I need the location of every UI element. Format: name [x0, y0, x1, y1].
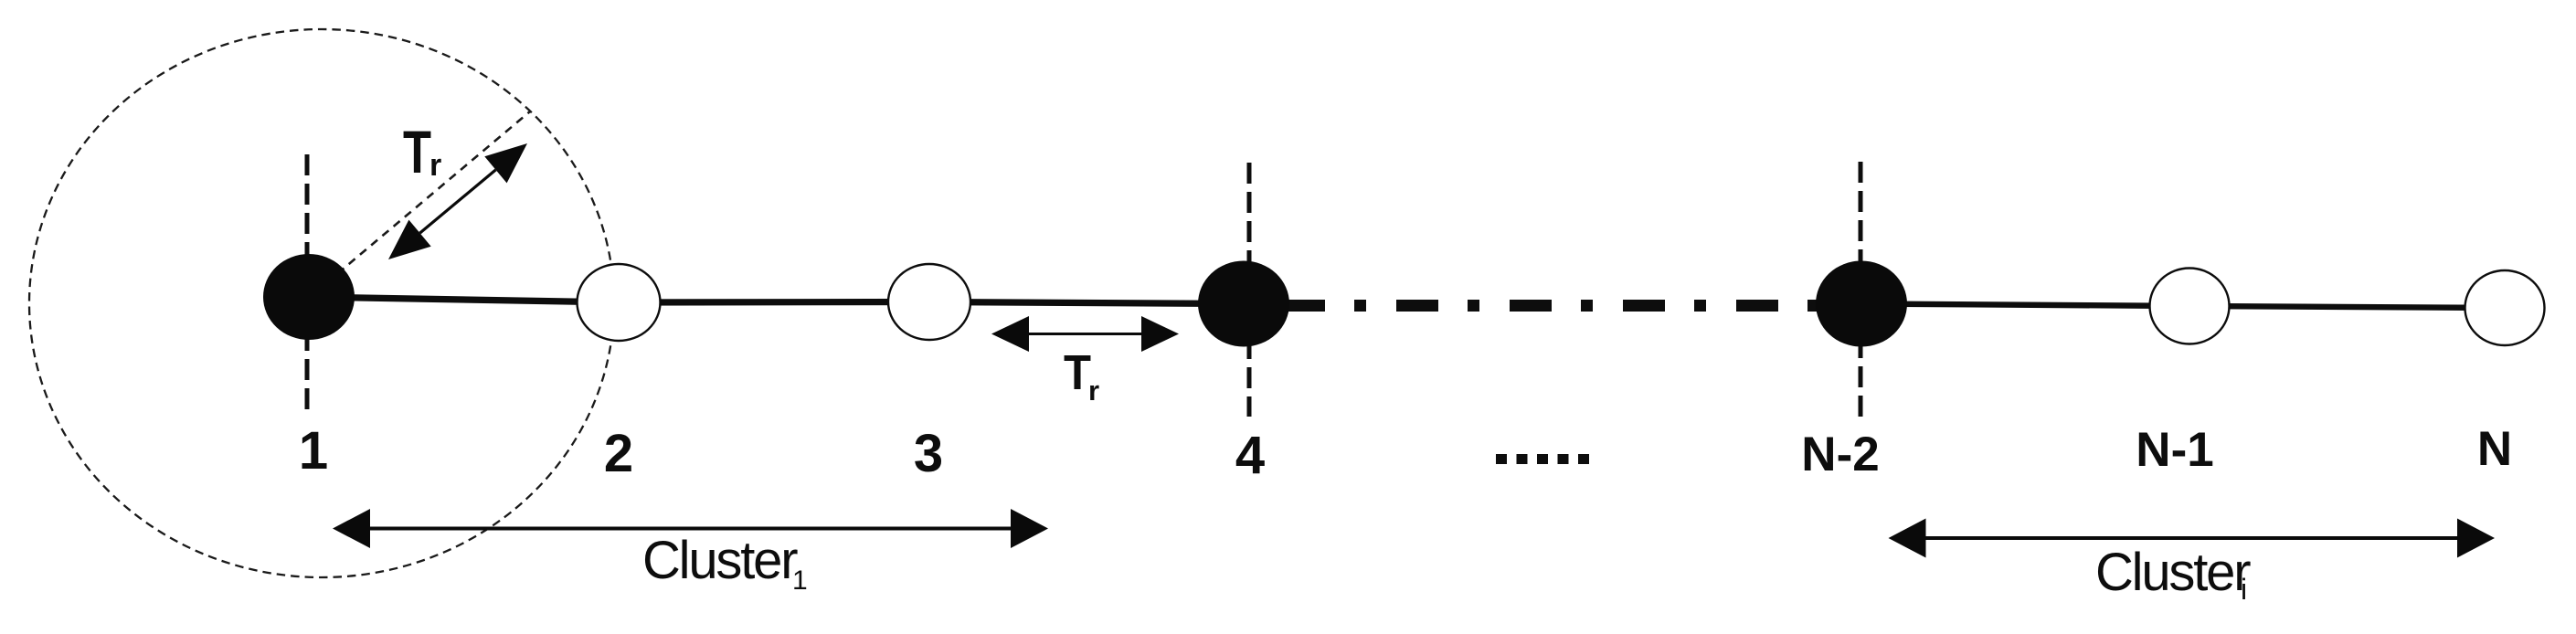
node N (open): [2465, 270, 2545, 345]
node 1 (cluster head, filled): [263, 254, 355, 340]
dashed radius line from node 1 to circle edge: [315, 111, 530, 292]
svg-text:r: r: [429, 148, 441, 183]
svg-text:1: 1: [299, 421, 328, 481]
vertical dashed line through node 1: [305, 154, 310, 416]
wire: chain link node1-node2-node3-node4: [309, 297, 1244, 304]
svg-text:1: 1: [792, 565, 808, 596]
ellipsis dots between clusters: [1496, 454, 1589, 464]
node N-2 (cluster head, filled): [1816, 261, 1907, 347]
svg-text:N-1: N-1: [2136, 423, 2213, 477]
radius arrow shaft: [420, 170, 496, 233]
svg-text:i: i: [2241, 573, 2247, 606]
svg-text:N: N: [2477, 422, 2512, 476]
node 3 (open): [888, 264, 970, 340]
Clusteri span arrow: [1921, 536, 2463, 540]
wire: heavy dash-dot link between node 4 and node N-2: [1275, 300, 1325, 312]
vertical dashed line through node 4: [1247, 163, 1252, 417]
node 2 (open): [578, 264, 661, 341]
svg-text:T: T: [403, 118, 431, 185]
svg-text:T: T: [1064, 345, 1091, 400]
wire: chain link nodeN-2 - nodeN-1 - nodeN: [1861, 304, 2505, 309]
svg-text:Cluster: Cluster: [642, 531, 798, 590]
svg-text:N-2: N-2: [1801, 428, 1879, 481]
Cluster1 span arrow: [366, 527, 1016, 531]
svg-text:4: 4: [1235, 426, 1265, 485]
node N-1 (open): [2150, 269, 2230, 344]
vertical dashed line through node N-2: [1859, 162, 1863, 418]
svg-text:3: 3: [914, 424, 943, 483]
Tr double arrow between node 3 and node 4: [991, 316, 1179, 352]
svg-text:Cluster: Cluster: [2095, 543, 2251, 602]
svg-text:r: r: [1088, 375, 1099, 407]
node 4 (cluster head, filled): [1198, 261, 1289, 347]
svg-text:2: 2: [604, 424, 633, 483]
radius double arrow Tr: [388, 143, 527, 259]
transmission-range dashed circle around node 1: [29, 29, 614, 577]
